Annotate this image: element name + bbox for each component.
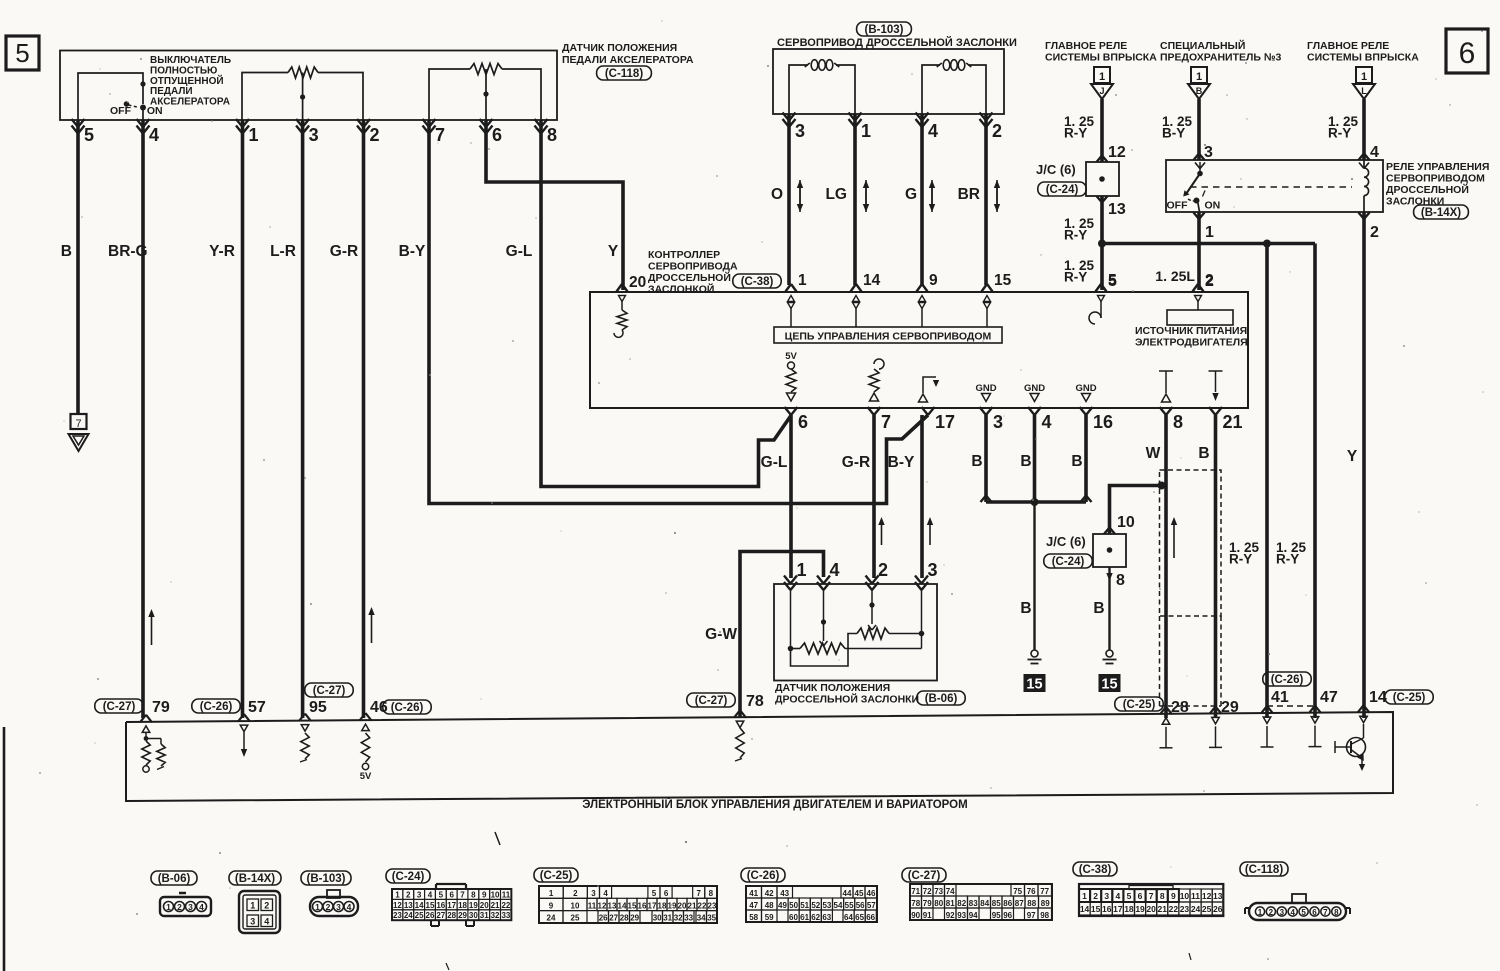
svg-text:J: J [1099, 86, 1104, 96]
svg-text:(C-26): (C-26) [200, 701, 233, 713]
svg-text:G-L: G-L [506, 243, 533, 260]
svg-text:(C-24): (C-24) [392, 871, 425, 883]
svg-text:B: B [61, 243, 72, 260]
svg-text:24: 24 [404, 911, 413, 920]
svg-text:79: 79 [152, 699, 170, 716]
svg-text:21: 21 [688, 901, 697, 910]
svg-text:21: 21 [1158, 904, 1168, 914]
svg-text:41: 41 [749, 889, 758, 898]
svg-text:22: 22 [698, 901, 707, 910]
svg-text:3: 3 [928, 560, 938, 580]
svg-text:R-Y: R-Y [1064, 228, 1087, 243]
svg-text:10: 10 [1180, 891, 1190, 901]
svg-text:5: 5 [15, 38, 29, 68]
svg-text:56: 56 [856, 901, 865, 910]
svg-text:R-Y: R-Y [1276, 552, 1299, 567]
svg-text:G-L: G-L [761, 454, 788, 471]
svg-text:8: 8 [1334, 908, 1339, 917]
svg-text:93: 93 [957, 911, 966, 920]
svg-text:24: 24 [1191, 904, 1201, 914]
svg-text:32: 32 [491, 911, 500, 920]
svg-text:58: 58 [749, 913, 758, 922]
svg-text:29: 29 [630, 914, 639, 923]
svg-text:12: 12 [393, 901, 402, 910]
svg-text:(C-26): (C-26) [391, 702, 424, 714]
svg-text:8: 8 [709, 889, 714, 898]
svg-text:13: 13 [1213, 891, 1223, 901]
svg-text:11: 11 [588, 901, 597, 910]
svg-text:95: 95 [992, 911, 1001, 920]
svg-text:8: 8 [1173, 412, 1183, 432]
svg-text:86: 86 [1003, 899, 1012, 908]
svg-text:2: 2 [326, 902, 331, 912]
svg-text:ПЕДАЛИ АКСЕЛЕРАТОРА: ПЕДАЛИ АКСЕЛЕРАТОРА [562, 54, 694, 66]
svg-text:КОНТРОЛЛЕР: КОНТРОЛЛЕР [648, 249, 720, 261]
svg-text:(C-27): (C-27) [313, 685, 346, 697]
svg-text:8: 8 [1160, 891, 1165, 901]
svg-text:G-W: G-W [705, 626, 737, 643]
svg-text:32: 32 [674, 914, 683, 923]
svg-text:3: 3 [1204, 144, 1213, 161]
svg-text:10: 10 [571, 901, 580, 910]
svg-text:97: 97 [1027, 911, 1036, 920]
svg-text:31: 31 [663, 914, 672, 923]
svg-text:27: 27 [436, 911, 445, 920]
svg-text:75: 75 [1013, 887, 1022, 896]
svg-text:11: 11 [1191, 891, 1200, 901]
svg-text:54: 54 [834, 901, 843, 910]
svg-text:95: 95 [309, 699, 327, 716]
svg-text:L: L [1361, 86, 1367, 96]
svg-text:ПРЕДОХРАНИТЕЛЬ №3: ПРЕДОХРАНИТЕЛЬ №3 [1160, 52, 1282, 64]
svg-text:B: B [971, 453, 982, 470]
svg-text:7: 7 [1323, 908, 1328, 917]
svg-text:R-Y: R-Y [1064, 270, 1087, 285]
svg-text:15: 15 [1101, 677, 1117, 693]
svg-text:4: 4 [264, 916, 269, 926]
svg-text:62: 62 [811, 913, 820, 922]
svg-text:OFF: OFF [110, 105, 132, 117]
svg-text:L-R: L-R [270, 243, 296, 260]
svg-text:12: 12 [1108, 144, 1126, 161]
svg-text:(B-06): (B-06) [925, 693, 958, 705]
svg-text:17: 17 [648, 901, 657, 910]
svg-text:(C-38): (C-38) [1079, 864, 1112, 876]
svg-text:19: 19 [469, 901, 478, 910]
svg-text:2: 2 [1093, 891, 1098, 901]
svg-text:3: 3 [1280, 908, 1285, 917]
svg-text:Y: Y [608, 243, 619, 260]
svg-text:B: B [1196, 86, 1203, 96]
svg-text:СЕРВОПРИВОДОМ: СЕРВОПРИВОДОМ [1386, 173, 1485, 185]
svg-text:8: 8 [471, 890, 476, 899]
svg-text:ИСТОЧНИК ПИТАНИЯ: ИСТОЧНИК ПИТАНИЯ [1135, 325, 1247, 337]
svg-text:3: 3 [336, 902, 341, 912]
svg-text:53: 53 [822, 901, 831, 910]
svg-text:BR: BR [958, 186, 980, 203]
svg-text:1: 1 [1196, 71, 1202, 83]
svg-text:(C-25): (C-25) [1123, 699, 1156, 711]
svg-text:82: 82 [957, 899, 966, 908]
svg-text:81: 81 [946, 899, 955, 908]
svg-text:2: 2 [1269, 908, 1274, 917]
svg-text:19: 19 [1135, 904, 1145, 914]
svg-text:9: 9 [549, 901, 554, 910]
svg-text:6: 6 [664, 889, 669, 898]
svg-text:R-Y: R-Y [1229, 552, 1252, 567]
svg-text:23: 23 [708, 901, 717, 910]
svg-text:4: 4 [1290, 908, 1295, 917]
svg-text:4: 4 [1115, 891, 1120, 901]
svg-text:23: 23 [393, 911, 402, 920]
svg-text:98: 98 [1040, 911, 1049, 920]
svg-text:80: 80 [934, 899, 943, 908]
svg-text:B-Y: B-Y [888, 454, 915, 471]
svg-text:20: 20 [629, 274, 646, 291]
svg-text:СИСТЕМЫ ВПРЫСКА: СИСТЕМЫ ВПРЫСКА [1307, 52, 1419, 64]
svg-text:(B-103): (B-103) [865, 24, 904, 36]
svg-text:89: 89 [1041, 899, 1050, 908]
svg-text:20: 20 [678, 901, 687, 910]
svg-text:35: 35 [707, 914, 716, 923]
svg-text:(C-38): (C-38) [741, 276, 774, 288]
svg-text:91: 91 [923, 911, 932, 920]
svg-text:64: 64 [844, 913, 853, 922]
svg-text:OFF: OFF [1167, 200, 1189, 212]
svg-text:5: 5 [1108, 272, 1117, 289]
svg-text:2: 2 [1370, 224, 1379, 241]
svg-text:1: 1 [1099, 71, 1105, 83]
svg-text:6: 6 [449, 890, 454, 899]
svg-text:5: 5 [1301, 908, 1306, 917]
svg-text:2: 2 [1205, 272, 1214, 289]
svg-text:14: 14 [863, 272, 881, 289]
svg-text:66: 66 [866, 913, 875, 922]
svg-text:3: 3 [795, 121, 805, 141]
svg-text:1: 1 [1361, 71, 1367, 83]
svg-text:ПЕДАЛИ: ПЕДАЛИ [150, 86, 193, 97]
svg-text:16: 16 [1102, 904, 1112, 914]
svg-text:13: 13 [404, 901, 413, 910]
svg-text:(B-103): (B-103) [307, 873, 346, 885]
svg-text:ЦЕПЬ УПРАВЛЕНИЯ СЕРВОПРИВОДОМ: ЦЕПЬ УПРАВЛЕНИЯ СЕРВОПРИВОДОМ [785, 331, 992, 343]
svg-text:49: 49 [778, 901, 787, 910]
svg-text:2: 2 [573, 889, 578, 898]
svg-text:5: 5 [652, 889, 657, 898]
svg-text:96: 96 [1003, 911, 1012, 920]
svg-text:7: 7 [75, 418, 81, 430]
svg-text:10: 10 [491, 890, 500, 899]
svg-text:ДРОССЕЛЬНОЙ: ДРОССЕЛЬНОЙ [648, 271, 731, 284]
svg-text:22: 22 [1169, 904, 1179, 914]
svg-text:(C-27): (C-27) [695, 695, 728, 707]
svg-text:(C-24): (C-24) [1052, 556, 1085, 568]
svg-text:(B-06): (B-06) [158, 873, 191, 885]
svg-text:ЭЛЕКТРОДВИГАТЕЛЯ: ЭЛЕКТРОДВИГАТЕЛЯ [1135, 337, 1248, 349]
svg-text:Y: Y [1347, 448, 1358, 465]
svg-text:5V: 5V [360, 771, 372, 782]
svg-text:GND: GND [1024, 383, 1045, 394]
svg-text:21: 21 [491, 901, 500, 910]
svg-text:J/C (6): J/C (6) [1046, 534, 1086, 549]
svg-text:G-R: G-R [842, 454, 870, 471]
svg-text:87: 87 [1015, 899, 1024, 908]
svg-text:G: G [905, 186, 917, 203]
svg-text:ОТПУЩЕННОЙ: ОТПУЩЕННОЙ [150, 74, 224, 87]
svg-text:29: 29 [458, 911, 467, 920]
svg-text:LG: LG [825, 186, 847, 203]
svg-text:ДАТЧИК ПОЛОЖЕНИЯ: ДАТЧИК ПОЛОЖЕНИЯ [562, 42, 677, 54]
svg-text:33: 33 [501, 911, 510, 920]
svg-text:4: 4 [149, 125, 159, 145]
svg-text:6: 6 [1459, 37, 1476, 70]
svg-text:8: 8 [547, 125, 557, 145]
svg-text:GND: GND [1075, 383, 1096, 394]
svg-text:(C-27): (C-27) [908, 870, 941, 882]
svg-text:30: 30 [469, 911, 478, 920]
svg-text:73: 73 [934, 887, 943, 896]
svg-text:R-Y: R-Y [1328, 126, 1351, 141]
svg-text:7: 7 [696, 889, 701, 898]
svg-text:18: 18 [658, 901, 667, 910]
svg-text:4: 4 [928, 121, 938, 141]
svg-text:B-Y: B-Y [399, 243, 426, 260]
svg-text:20: 20 [1146, 904, 1156, 914]
svg-text:43: 43 [780, 889, 789, 898]
svg-text:(C-118): (C-118) [605, 68, 644, 80]
svg-text:57: 57 [248, 699, 266, 716]
svg-text:92: 92 [946, 911, 955, 920]
svg-text:1: 1 [1258, 908, 1263, 917]
svg-text:СЕРВОПРИВОДА: СЕРВОПРИВОДА [648, 261, 738, 273]
svg-text:5: 5 [439, 890, 444, 899]
svg-text:1: 1 [250, 900, 255, 910]
svg-text:ON: ON [1205, 200, 1221, 212]
svg-text:71: 71 [911, 887, 920, 896]
svg-text:52: 52 [811, 901, 820, 910]
svg-text:90: 90 [911, 911, 920, 920]
svg-text:СЕРВОПРИВОД ДРОССЕЛЬНОЙ ЗАСЛОН: СЕРВОПРИВОД ДРОССЕЛЬНОЙ ЗАСЛОНКИ [777, 36, 1017, 49]
svg-text:ГЛАВНОЕ РЕЛЕ: ГЛАВНОЕ РЕЛЕ [1307, 40, 1389, 52]
svg-text:(C-26): (C-26) [747, 870, 780, 882]
svg-text:B: B [1093, 600, 1104, 617]
svg-text:(C-27): (C-27) [103, 701, 136, 713]
svg-text:26: 26 [1213, 904, 1223, 914]
svg-text:13: 13 [608, 901, 617, 910]
svg-text:78: 78 [746, 693, 764, 710]
svg-text:12: 12 [1202, 891, 1212, 901]
svg-text:(B-14X): (B-14X) [1421, 207, 1461, 219]
svg-text:G-R: G-R [330, 243, 358, 260]
svg-text:ГЛАВНОЕ РЕЛЕ: ГЛАВНОЕ РЕЛЕ [1045, 40, 1127, 52]
svg-text:46: 46 [867, 889, 876, 898]
svg-text:5: 5 [1127, 891, 1132, 901]
svg-text:28: 28 [620, 914, 629, 923]
svg-text:R-Y: R-Y [1064, 126, 1087, 141]
svg-text:ДРОССЕЛЬНОЙ ЗАСЛОНКИ: ДРОССЕЛЬНОЙ ЗАСЛОНКИ [775, 693, 919, 706]
svg-text:11: 11 [502, 890, 511, 899]
svg-text:84: 84 [980, 899, 989, 908]
svg-text:6: 6 [1312, 908, 1317, 917]
svg-text:25: 25 [571, 914, 580, 923]
svg-text:1: 1 [249, 125, 259, 145]
svg-text:2: 2 [878, 560, 888, 580]
svg-text:ПОЛНОСТЬЮ: ПОЛНОСТЬЮ [150, 65, 217, 76]
svg-text:B: B [1198, 445, 1209, 462]
svg-text:O: O [771, 186, 783, 203]
svg-text:8: 8 [1116, 572, 1125, 589]
svg-text:16: 16 [436, 901, 445, 910]
svg-text:22: 22 [501, 901, 510, 910]
svg-text:14: 14 [618, 901, 627, 910]
svg-text:34: 34 [697, 914, 706, 923]
svg-text:1: 1 [1082, 891, 1087, 901]
svg-text:(C-24): (C-24) [1046, 184, 1079, 196]
svg-text:10: 10 [1117, 514, 1135, 531]
svg-text:33: 33 [684, 914, 693, 923]
svg-text:16: 16 [1093, 412, 1113, 432]
svg-text:9: 9 [929, 272, 938, 289]
svg-text:18: 18 [458, 901, 467, 910]
svg-text:50: 50 [789, 901, 798, 910]
svg-text:47: 47 [749, 901, 758, 910]
svg-text:3: 3 [1104, 891, 1109, 901]
svg-text:1: 1 [395, 890, 400, 899]
svg-text:94: 94 [969, 911, 978, 920]
svg-text:9: 9 [1171, 891, 1176, 901]
svg-text:25: 25 [1202, 904, 1212, 914]
svg-text:1: 1 [549, 889, 554, 898]
svg-text:4: 4 [1042, 412, 1052, 432]
svg-text:4: 4 [830, 560, 840, 580]
svg-text:РЕЛЕ УПРАВЛЕНИЯ: РЕЛЕ УПРАВЛЕНИЯ [1386, 161, 1489, 173]
svg-text:ЗАСЛОНКОЙ: ЗАСЛОНКОЙ [648, 283, 714, 296]
svg-text:W: W [1146, 445, 1161, 462]
svg-text:7: 7 [460, 890, 465, 899]
svg-text:12: 12 [598, 901, 607, 910]
svg-text:1: 1 [166, 902, 171, 912]
svg-text:17: 17 [935, 412, 955, 432]
svg-text:15: 15 [994, 272, 1012, 289]
svg-text:79: 79 [923, 899, 932, 908]
svg-text:6: 6 [492, 125, 502, 145]
svg-text:3: 3 [993, 412, 1003, 432]
svg-text:77: 77 [1040, 887, 1049, 896]
svg-text:B: B [1071, 453, 1082, 470]
svg-text:31: 31 [480, 911, 489, 920]
svg-text:21: 21 [1223, 412, 1243, 432]
svg-text:30: 30 [653, 914, 662, 923]
svg-text:B-Y: B-Y [1162, 126, 1185, 141]
svg-text:51: 51 [800, 901, 809, 910]
svg-text:5V: 5V [785, 351, 797, 362]
svg-text:1: 1 [315, 902, 320, 912]
svg-text:78: 78 [911, 899, 920, 908]
svg-text:(C-118): (C-118) [1245, 864, 1284, 876]
svg-text:61: 61 [800, 913, 809, 922]
svg-text:13: 13 [1108, 201, 1126, 218]
svg-text:42: 42 [765, 889, 774, 898]
svg-text:17: 17 [1113, 904, 1123, 914]
svg-text:15: 15 [426, 901, 435, 910]
svg-text:7: 7 [435, 125, 445, 145]
svg-text:26: 26 [426, 911, 435, 920]
svg-text:(C-25): (C-25) [540, 870, 573, 882]
svg-text:3: 3 [309, 125, 319, 145]
svg-text:74: 74 [946, 887, 955, 896]
svg-text:СИСТЕМЫ ВПРЫСКА: СИСТЕМЫ ВПРЫСКА [1045, 52, 1157, 64]
svg-text:14: 14 [415, 901, 424, 910]
svg-text:ЭЛЕКТРОННЫЙ БЛОК УПРАВЛЕНИЯ ДВ: ЭЛЕКТРОННЫЙ БЛОК УПРАВЛЕНИЯ ДВИГАТЕЛЕМ И… [582, 798, 967, 811]
svg-text:(C-25): (C-25) [1393, 692, 1426, 704]
svg-text:3: 3 [417, 890, 422, 899]
svg-text:ВЫКЛЮЧАТЕЛЬ: ВЫКЛЮЧАТЕЛЬ [150, 55, 231, 66]
svg-text:15: 15 [1026, 677, 1042, 693]
svg-text:BR-G: BR-G [108, 243, 148, 260]
svg-text:(B-14X): (B-14X) [235, 873, 275, 885]
svg-text:48: 48 [765, 901, 774, 910]
svg-text:Y-R: Y-R [209, 243, 235, 260]
svg-text:45: 45 [855, 889, 864, 898]
svg-text:4: 4 [347, 902, 352, 912]
svg-text:J/C (6): J/C (6) [1036, 162, 1076, 177]
svg-text:(C-26): (C-26) [1271, 674, 1304, 686]
svg-text:4: 4 [199, 902, 204, 912]
svg-text:60: 60 [789, 913, 798, 922]
svg-text:59: 59 [765, 913, 774, 922]
svg-text:25: 25 [415, 911, 424, 920]
svg-text:18: 18 [1124, 904, 1134, 914]
svg-text:1: 1 [861, 121, 871, 141]
svg-text:85: 85 [992, 899, 1001, 908]
svg-text:17: 17 [447, 901, 456, 910]
svg-text:2: 2 [992, 121, 1002, 141]
svg-text:55: 55 [845, 901, 854, 910]
svg-text:ДРОССЕЛЬНОЙ: ДРОССЕЛЬНОЙ [1386, 183, 1469, 196]
svg-text:B: B [1020, 453, 1031, 470]
svg-text:ДАТЧИК ПОЛОЖЕНИЯ: ДАТЧИК ПОЛОЖЕНИЯ [775, 682, 890, 694]
svg-text:88: 88 [1027, 899, 1036, 908]
svg-text:2: 2 [406, 890, 411, 899]
svg-text:15: 15 [628, 901, 637, 910]
svg-text:14: 14 [1080, 904, 1090, 914]
svg-text:16: 16 [638, 901, 647, 910]
svg-text:2: 2 [370, 125, 380, 145]
svg-text:6: 6 [798, 412, 808, 432]
svg-text:44: 44 [843, 889, 852, 898]
svg-text:АКСЕЛЕРАТОРА: АКСЕЛЕРАТОРА [150, 97, 230, 108]
svg-text:1. 25L: 1. 25L [1155, 268, 1195, 284]
svg-text:24: 24 [547, 914, 556, 923]
svg-text:7: 7 [881, 412, 891, 432]
svg-text:4: 4 [603, 889, 608, 898]
svg-text:7: 7 [1149, 891, 1154, 901]
svg-text:1: 1 [797, 560, 807, 580]
svg-text:9: 9 [482, 890, 487, 899]
svg-text:72: 72 [923, 887, 932, 896]
svg-text:6: 6 [1138, 891, 1143, 901]
svg-text:28: 28 [447, 911, 456, 920]
svg-text:СПЕЦИАЛЬНЫЙ: СПЕЦИАЛЬНЫЙ [1160, 39, 1245, 52]
svg-text:41: 41 [1271, 689, 1289, 706]
svg-text:2: 2 [177, 902, 182, 912]
svg-text:3: 3 [188, 902, 193, 912]
svg-text:GND: GND [975, 383, 996, 394]
svg-text:3: 3 [591, 889, 596, 898]
svg-text:23: 23 [1180, 904, 1190, 914]
svg-text:1: 1 [798, 272, 807, 289]
svg-text:83: 83 [969, 899, 978, 908]
